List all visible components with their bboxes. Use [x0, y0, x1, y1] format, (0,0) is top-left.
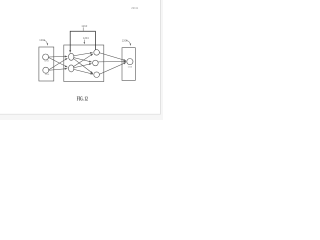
- output layer box: [122, 48, 135, 81]
- node H2: [69, 65, 74, 72]
- input box leader arrow: [44, 40, 48, 45]
- wire H2 to G3: [74, 69, 93, 74]
- output box leader arrow: [126, 41, 130, 46]
- node H1: [69, 53, 74, 60]
- node I1: [43, 54, 49, 60]
- node G3: [94, 72, 100, 78]
- wire H1 to G1: [74, 53, 93, 56]
- svg-text:1204: 1204: [83, 36, 89, 40]
- wire H1 to G3: [74, 59, 93, 74]
- wire H1 to G2: [74, 58, 92, 62]
- wire G3 to O1: [99, 63, 126, 75]
- hidden layer box: [64, 45, 104, 82]
- page edge bottom: [0, 113, 161, 115]
- page edge right: [159, 0, 161, 114]
- hidden box leader arrow: [83, 40, 85, 44]
- wire G1 to O1: [99, 53, 126, 61]
- input layer box: [39, 47, 54, 81]
- off-page strip bottom: [0, 114, 163, 120]
- wire I1 to H1: [48, 55, 67, 58]
- page background: [0, 0, 163, 120]
- node O1: [127, 59, 133, 65]
- node G1: [94, 50, 100, 56]
- off-page strip right: [161, 0, 163, 120]
- svg-text:1202: 1202: [39, 38, 45, 42]
- wire H2 to G1: [74, 54, 94, 67]
- svg-text:FIG. 12: FIG. 12: [77, 97, 88, 103]
- wire H2 to G2: [74, 64, 92, 68]
- node I2: [43, 67, 49, 73]
- wire G2 to O1: [98, 61, 126, 63]
- wire I2 to H1: [49, 58, 68, 70]
- feedback loop wire: [70, 31, 95, 52]
- wire I1 to H2: [48, 57, 67, 67]
- feedback label leader: [82, 27, 84, 31]
- node G2: [93, 60, 99, 66]
- wire I2 to H2: [49, 69, 67, 71]
- svg-text:1210: 1210: [81, 24, 87, 28]
- svg-text:1206: 1206: [122, 38, 128, 42]
- svg-text:29/41: 29/41: [131, 6, 138, 10]
